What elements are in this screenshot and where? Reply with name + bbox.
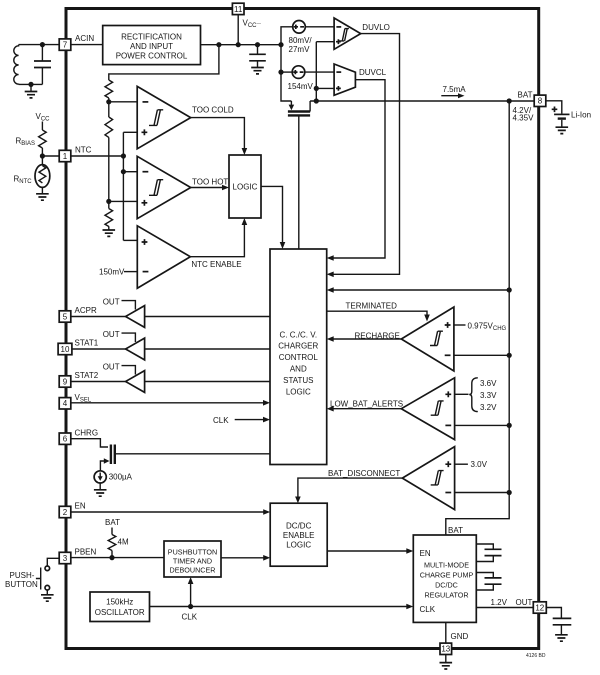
callout OUT line (STAT2) [122, 366, 136, 375]
pin 5 (ACPR) [59, 311, 71, 322]
label + (battery polarity) [552, 107, 558, 113]
pushbutton switch [36, 566, 50, 595]
svg-text:OSCILLATOR: OSCILLATOR [95, 608, 145, 617]
ground (VCC cap) [251, 68, 264, 74]
wire EN to DC/DC enable [71, 511, 267, 513]
wire DUVCL output [330, 80, 386, 258]
wire PBEN net [71, 557, 164, 559]
node junction rail/recharge-minus [507, 353, 512, 358]
arrow into CCCV (RECHARGE) [327, 336, 334, 342]
wire buffer STAT1 input [145, 348, 270, 350]
svg-text:4M: 4M [118, 538, 129, 547]
svg-text:TERMINATED: TERMINATED [346, 301, 398, 310]
svg-text:OUT: OUT [103, 330, 120, 339]
wire chain node1 [108, 98, 110, 102]
svg-text:150kHz: 150kHz [106, 598, 133, 607]
svg-text:CONTROL: CONTROL [279, 353, 319, 362]
wire pin9 to buffer [71, 381, 126, 383]
wire NTC net (pin1 to comparators) [71, 155, 124, 157]
resistor chain R1 [105, 80, 113, 98]
svg-text:7: 7 [63, 41, 68, 50]
svg-text:300µA: 300µA [109, 473, 133, 482]
arrow into multimode (CLK) [406, 604, 413, 610]
buffer STAT1 [126, 338, 145, 360]
svg-text:LOGIC: LOGIC [286, 541, 311, 550]
wire lowbat minus [455, 424, 510, 426]
wire DUVLO output [330, 34, 400, 275]
svg-text:LOGIC: LOGIC [286, 387, 311, 396]
arrow into CCCV right (BAT) [327, 287, 334, 293]
node junction (cap top) [40, 42, 45, 47]
capacitor C (external input) [34, 45, 51, 85]
svg-text:27mV: 27mV [289, 45, 311, 54]
block PUSHBUTTON TIMER AND DEBOUNCER [164, 541, 221, 577]
label 3.6V 3.3V 3.2V [480, 379, 497, 412]
svg-text:NTC ENABLE: NTC ENABLE [191, 260, 241, 269]
wire batdisc minus [455, 492, 510, 494]
svg-text:BAT: BAT [518, 91, 533, 100]
annotation arrow 7.5mA [441, 93, 464, 98]
wire pin5 to buffer [71, 316, 126, 318]
svg-text:RNTC: RNTC [14, 175, 33, 186]
pin 12 (OUT) [533, 602, 546, 613]
svg-text:POWER CONTROL: POWER CONTROL [116, 52, 188, 61]
resistor chain R2 [105, 117, 113, 137]
ground (output cap) [555, 635, 568, 641]
svg-text:CHARGER: CHARGER [278, 342, 318, 351]
wire sources rail [281, 27, 293, 101]
callout OUT line (ACPR) [122, 301, 136, 310]
ground (RNTC) [36, 194, 49, 200]
callout OUT line (STAT1) [122, 333, 136, 342]
svg-text:4.35V: 4.35V [513, 114, 535, 123]
svg-text:CLK: CLK [213, 416, 229, 425]
node junction BAT line tap [314, 98, 319, 103]
wire to TOO HOT minus [123, 171, 137, 173]
svg-text:11: 11 [234, 5, 243, 14]
wire to TOO HOT plus input [109, 200, 138, 202]
pin 3 (PBEN) [59, 552, 71, 563]
svg-text:LOGIC: LOGIC [233, 183, 258, 192]
pin 4 (VSEL) [59, 398, 71, 409]
node junction NTC/too-hot-minus [121, 169, 126, 174]
wire VSEL to CCCV [71, 402, 267, 404]
arrow into LOGIC bottom [242, 218, 248, 225]
svg-text:CLK: CLK [420, 605, 436, 614]
arrow into LOGIC left [222, 185, 229, 191]
brace (threshold list) [469, 378, 478, 412]
wire TERMINATED [327, 311, 427, 315]
wire TOO COLD output [191, 118, 245, 149]
arrow into CCCV (LOW_BAT) [327, 406, 334, 412]
wire pin3 to pushbutton [47, 558, 59, 566]
svg-text:LOW_BAT_ALERTS: LOW_BAT_ALERTS [330, 399, 403, 408]
MOSFET Q1 (charge path) [288, 101, 310, 249]
node junction VCC/sources rail [278, 42, 283, 47]
wire CHRG to mosfet drain [71, 439, 108, 447]
svg-text:STAT1: STAT1 [75, 339, 99, 348]
svg-text:5: 5 [63, 312, 68, 321]
node junction (ground stub) [28, 82, 33, 87]
node junction VCC/chain [216, 42, 221, 47]
inductor L (external) [14, 45, 19, 85]
svg-text:TOO COLD: TOO COLD [192, 106, 234, 115]
pin 10 (STAT1) [58, 343, 72, 354]
svg-text:OUT: OUT [103, 297, 120, 306]
wire chain segment [108, 102, 110, 117]
buffer ACPR [126, 306, 145, 328]
svg-text:12: 12 [535, 603, 544, 612]
ground (current source) [94, 490, 107, 496]
node junction plus inputs [314, 86, 319, 91]
arrow into CCCV (VSEL) [263, 400, 270, 406]
svg-text:150mV: 150mV [99, 268, 125, 277]
wire chain segment 3 [108, 201, 110, 208]
wire buffer STAT2 input [145, 381, 270, 383]
capacitor VCC decoupling [249, 45, 266, 68]
wire VCC internal rail (horizontal) [201, 44, 282, 46]
wire to TOO COLD minus input [109, 101, 137, 103]
buffer STAT2 [126, 371, 145, 393]
svg-text:VCC: VCC [36, 112, 51, 123]
svg-text:9: 9 [63, 377, 68, 386]
arrow into DC/DC enable (EN) [263, 509, 270, 515]
arrow into multimode (EN) [406, 548, 413, 554]
arrow into CCCV right (DUVCL) [327, 255, 334, 261]
wire rail to 154mV source [281, 71, 292, 73]
resistor RBIAS [39, 122, 47, 157]
label PUSH-BUTTON [5, 571, 38, 589]
wire LOGIC output to CCCV [261, 186, 283, 243]
battery Li-Ion [554, 114, 569, 127]
wire 154mV to DUVCL minus [305, 71, 334, 73]
svg-text:NTC: NTC [75, 145, 92, 154]
node junction NTC/vertical [121, 153, 126, 158]
wire OUT to pin 12 [476, 607, 533, 609]
wire pin12 to output cap [546, 608, 561, 619]
svg-text:80mV/: 80mV/ [289, 36, 313, 45]
wire ACIN to rectification [71, 44, 103, 46]
ground (input filter) [25, 84, 38, 98]
node junction rail/CCCV [507, 287, 512, 292]
svg-text:C. C./C. V.: C. C./C. V. [280, 330, 318, 339]
svg-text:3.0V: 3.0V [471, 460, 488, 469]
svg-text:DEBOUNCER: DEBOUNCER [170, 566, 216, 575]
arrow into timer bottom [188, 577, 194, 584]
block C.C./C.V. CHARGER CONTROL AND STATUS LOGIC [270, 249, 327, 465]
arrow TERMINATED into comparator [424, 315, 430, 322]
arrow into CCCV (CLK) [263, 417, 270, 423]
wire NTC ENABLE output [190, 224, 244, 257]
voltage source 80mV/27mV [293, 21, 306, 34]
svg-text:MULTI-MODE: MULTI-MODE [424, 561, 469, 570]
wire to TOO COLD plus [123, 131, 137, 133]
wire BAT_DISCONNECT output [298, 478, 402, 500]
comparator NTC ENABLE [137, 226, 190, 288]
amplifier DUVCL (trapezoid) [334, 64, 355, 95]
comparator BAT_DISCONNECT [402, 447, 454, 510]
wire buffer ACPR input [145, 316, 270, 318]
wire 80mV to DUVLO minus [305, 26, 334, 28]
node junction VCC/pin11 [236, 42, 241, 47]
wire LOW_BAT output [330, 408, 402, 410]
wire NTC vertical tap [122, 132, 124, 240]
wire pin10 to buffer [72, 348, 126, 350]
svg-text:13: 13 [441, 645, 450, 654]
thermistor RNTC [35, 156, 50, 194]
svg-text:BAT_DISCONNECT: BAT_DISCONNECT [328, 469, 400, 478]
svg-text:ACIN: ACIN [75, 34, 94, 43]
wire batdisc plus stub [455, 463, 468, 465]
wire lowbat plus stub [455, 393, 469, 395]
node junction chain/TOO COLD [106, 99, 111, 104]
block 150kHz OSCILLATOR [90, 592, 150, 622]
ground (battery) [556, 127, 569, 133]
svg-text:RBIAS: RBIAS [16, 137, 35, 148]
wire chain feed elbow [109, 45, 219, 80]
current source 300uA [94, 471, 106, 490]
arrow into LOGIC top [242, 148, 248, 155]
pin 9 (STAT2) [59, 376, 71, 387]
svg-text:OUT: OUT [103, 362, 120, 371]
svg-text:BAT: BAT [105, 518, 120, 527]
svg-text:ACPR: ACPR [75, 306, 97, 315]
wire rail to CCCV right [330, 289, 510, 291]
node junction chain/TOO HOT [106, 199, 111, 204]
svg-text:AND INPUT: AND INPUT [130, 42, 173, 51]
wire pin13 to ground [445, 655, 447, 663]
svg-text:3.3V: 3.3V [480, 391, 497, 400]
node junction VCC/cap [255, 42, 260, 47]
resistor chain R3 [105, 209, 113, 227]
svg-text:0.975VCHG: 0.975VCHG [468, 321, 507, 332]
svg-text:DUVLO: DUVLO [362, 23, 390, 32]
svg-text:7.5mA: 7.5mA [443, 85, 467, 94]
svg-text:2: 2 [63, 508, 68, 517]
wire GND stub [445, 622, 447, 643]
svg-text:DC/DC: DC/DC [286, 522, 312, 531]
IC outline border [66, 9, 539, 649]
svg-text:4126 BD: 4126 BD [526, 653, 546, 659]
svg-text:PBEN: PBEN [75, 548, 97, 557]
svg-text:REGULATOR: REGULATOR [424, 591, 468, 600]
svg-text:4: 4 [63, 399, 68, 408]
block DC/DC ENABLE LOGIC [270, 503, 327, 566]
wire inductor bottom [19, 83, 43, 85]
svg-text:DC/DC: DC/DC [435, 581, 458, 590]
wire pin11 stub [237, 15, 239, 45]
svg-text:3.6V: 3.6V [480, 379, 497, 388]
wire chain segment 2 [108, 137, 110, 201]
svg-text:VCC–: VCC– [243, 19, 262, 30]
pin 13 (GND) [440, 643, 452, 654]
label 4.2V/4.35V [513, 106, 535, 123]
svg-text:154mV: 154mV [288, 82, 314, 91]
wire BAT sense vertical (DUVLO/DUVCL plus) [316, 42, 334, 101]
pin 6 (CHRG) [59, 433, 71, 444]
pin 8 (BAT) [534, 95, 546, 106]
arrow into DC/DC enable top [295, 497, 301, 504]
wire CLK up to timer [190, 580, 192, 606]
capacitor flying C2 [476, 573, 501, 591]
svg-text:BAT: BAT [448, 526, 463, 535]
pin 2 (EN) [59, 506, 71, 517]
capacitor flying C1 [476, 544, 501, 562]
node junction BAT/vertical rail [507, 98, 512, 103]
svg-text:ENABLE: ENABLE [283, 531, 315, 540]
wire recharge minus [454, 354, 509, 356]
svg-text:STATUS: STATUS [283, 376, 313, 385]
wire CLK stub [235, 419, 267, 421]
wire node to pin 1 [42, 155, 59, 157]
svg-text:STAT2: STAT2 [75, 371, 99, 380]
svg-text:VSEL: VSEL [75, 393, 92, 404]
capacitor output (external) [553, 618, 572, 634]
comparator RECHARGE [401, 307, 454, 371]
svg-text:3: 3 [63, 554, 68, 563]
wire TOO HOT output [191, 187, 223, 189]
svg-text:EN: EN [420, 549, 431, 558]
comparator TOO COLD [137, 86, 191, 148]
svg-text:10: 10 [61, 345, 70, 354]
svg-text:1: 1 [63, 152, 68, 161]
svg-text:CHARGE PUMP: CHARGE PUMP [420, 571, 474, 580]
arrow into DC/DC enable (PBEN) [263, 555, 270, 561]
node junction NTC [40, 153, 45, 158]
svg-text:PUSHBUTTON: PUSHBUTTON [168, 548, 217, 557]
wire to NTC ENABLE plus [123, 239, 137, 241]
svg-text:TIMER AND: TIMER AND [173, 557, 212, 566]
wire BAT vertical rail [446, 101, 509, 535]
comparator DUVLO [334, 18, 361, 49]
svg-text:PUSH-: PUSH- [10, 571, 35, 580]
node junction CLK/timer [188, 604, 193, 609]
comparator LOW_BAT_ALERTS [401, 378, 454, 440]
wire DC/DC enable output [327, 550, 410, 552]
svg-text:RECTIFICATION: RECTIFICATION [121, 33, 182, 42]
comparator TOO HOT [137, 156, 191, 218]
svg-text:DUVCL: DUVCL [359, 68, 387, 77]
svg-text:3.2V: 3.2V [480, 403, 497, 412]
wire recharge plus stub [454, 324, 466, 326]
block LOGIC [229, 155, 261, 218]
svg-text:CLK: CLK [182, 612, 198, 621]
svg-text:BUTTON: BUTTON [5, 580, 38, 589]
node junction rail/batdisc-minus [507, 490, 512, 495]
svg-text:Li-Ion: Li-Ion [571, 110, 591, 119]
arrow into CCCV right (DUVLO) [327, 272, 334, 278]
wire 150mV stub [124, 271, 137, 273]
pin 11 (VCC) [232, 3, 244, 14]
svg-text:OUT: OUT [516, 598, 533, 607]
wire timer output [221, 557, 267, 559]
wire RECHARGE output [330, 338, 402, 340]
ground (resistor chain) [103, 230, 116, 236]
svg-text:6: 6 [63, 435, 68, 444]
block RECTIFICATION AND INPUT POWER CONTROL [103, 26, 201, 65]
svg-text:AND: AND [290, 365, 307, 374]
pin 7 (ACIN) [59, 39, 71, 50]
svg-text:CHRG: CHRG [75, 428, 99, 437]
ground (pushbutton) [41, 595, 54, 601]
block MULTI-MODE CHARGE PUMP DC/DC REGULATOR [413, 535, 476, 622]
wire pin8 to battery [546, 101, 562, 114]
node junction PBEN/4M [109, 555, 114, 560]
ground (GND pin) [440, 663, 453, 669]
svg-text:EN: EN [75, 502, 86, 511]
label 80mV/27mV [289, 36, 313, 54]
node junction rail/lowbat-minus [507, 423, 512, 428]
svg-text:TOO HOT: TOO HOT [192, 177, 228, 186]
wire oscillator CLK net [150, 606, 411, 608]
svg-text:1.2V: 1.2V [491, 598, 508, 607]
voltage source 154mV [292, 66, 305, 79]
node junction rail/154mV [278, 70, 283, 75]
wire chain to ground [108, 226, 110, 230]
resistor 4M [108, 528, 116, 558]
pin 1 (NTC) [59, 150, 71, 161]
arrow into CCCV top (logic) [280, 242, 286, 249]
wire BAT line to pin 8 [310, 100, 534, 102]
svg-text:8: 8 [538, 97, 543, 106]
svg-text:GND: GND [451, 632, 469, 641]
wire ACIN external [19, 44, 60, 46]
MOSFET Q2 (CHRG indicator) [100, 445, 270, 471]
